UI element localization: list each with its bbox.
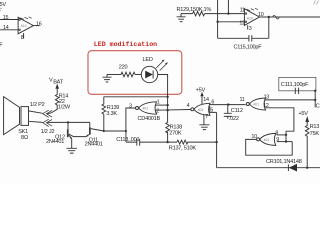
resistor R137 zigzag	[177, 140, 217, 144]
svg-text:C115,100pF: C115,100pF	[234, 45, 263, 51]
pin 7 stub + label	[203, 115, 205, 125]
wire pin 13 line	[265, 99, 315, 101]
svg-text:R13: R13	[310, 124, 320, 130]
svg-text:BAT: BAT	[53, 80, 64, 86]
ground (Q12 emitter)	[67, 148, 78, 153]
node gate U3 pin1	[166, 104, 168, 106]
wire U6 feedback loop	[246, 139, 293, 155]
ground (U4 pin 7)	[199, 125, 209, 130]
svg-text:5V: 5V	[0, 2, 6, 8]
pin 8 stub below U1	[23, 33, 25, 39]
wire C111 bottom edge acts as wire; node at right	[314, 90, 316, 92]
svg-text:+5V: +5V	[298, 111, 308, 117]
resistor R13x 75K vertical	[305, 122, 309, 168]
ground (R129)	[177, 14, 186, 22]
pin 16 output wire	[33, 25, 39, 27]
svg-text:8Ω: 8Ω	[21, 135, 29, 141]
connector 1/2 P2 chevrons	[43, 110, 52, 117]
wire long vertical to bottom line	[216, 112, 218, 167]
svg-text:12: 12	[263, 103, 269, 109]
wire pin 2 / U4 output line	[155, 109, 190, 112]
svg-text:R139: R139	[107, 105, 120, 111]
node C112	[227, 103, 229, 105]
resistor R138 vertical zigzag	[166, 122, 170, 133]
svg-text:75K: 75K	[310, 131, 320, 137]
wire pin 12 line	[218, 21, 245, 23]
svg-text:2N4401: 2N4401	[85, 141, 103, 147]
svg-text:1/2 P2: 1/2 P2	[30, 102, 45, 108]
svg-text:401: 401	[264, 138, 270, 142]
svg-text:1: 1	[157, 99, 160, 105]
node R137 junction	[215, 141, 217, 143]
wire R129 line to op-amp pin 11	[181, 13, 244, 15]
svg-text:2N4401: 2N4401	[46, 139, 64, 145]
svg-text:C113,.001: C113,.001	[116, 137, 139, 143]
svg-text:3.3K: 3.3K	[106, 111, 117, 117]
node R13x bottom	[306, 167, 308, 169]
resistor R129 zigzag	[193, 11, 205, 15]
capacitor C112	[224, 105, 232, 119]
NOR gate U4 (pins 6/5 in, 4 out, 14 VDD, 7 VSS)	[191, 103, 210, 115]
node pin 8	[285, 134, 287, 136]
svg-text:A10: A10	[247, 17, 253, 21]
svg-text:14: 14	[3, 25, 9, 31]
wire speaker top lead	[29, 111, 43, 113]
node gate U3 pin2 / U4 out	[166, 109, 168, 111]
capacitor C111 plates	[295, 88, 298, 94]
resistor R14 vertical	[51, 89, 59, 113]
wire vertical A from top to C115 feedback	[217, 0, 219, 38]
wire resistor to LED	[135, 74, 141, 76]
svg-text:+5V: +5V	[196, 88, 206, 94]
node LED net / horizontal branch	[166, 96, 168, 98]
svg-text:11: 11	[240, 97, 245, 103]
wire pin 1 stub	[155, 104, 167, 106]
svg-text:LED modification: LED modification	[94, 41, 157, 48]
wire U4 pin 6 to U5 output	[210, 104, 246, 106]
node Q12 collector	[67, 121, 69, 123]
svg-text:7: 7	[205, 114, 208, 120]
svg-text:9: 9	[276, 137, 279, 143]
output wire of U2 to right edge	[259, 16, 320, 18]
svg-text:A10: A10	[21, 24, 27, 28]
stray mark below 5V	[0, 8, 2, 10]
wire P2 to R14	[47, 112, 51, 115]
svg-text:1/2W: 1/2W	[58, 105, 71, 111]
connector 1/2 J2 chevrons	[43, 119, 52, 126]
ground (LED branch)	[103, 75, 112, 83]
node R138 bottom	[166, 141, 168, 143]
svg-text:8: 8	[275, 130, 278, 136]
svg-text:8: 8	[21, 35, 24, 41]
pin 14 wire	[0, 29, 18, 31]
wire LED cathode down (net to gates/R138)	[158, 75, 168, 143]
NOR gate U5 (pins 13/12 in, 11 out)	[246, 98, 265, 110]
svg-text:4: 4	[187, 103, 190, 109]
faint corner marks	[314, 1, 319, 5]
capacitor C111 boxed label	[279, 77, 316, 90]
svg-text:C1: C1	[316, 103, 320, 109]
node on pin 11 line	[227, 12, 229, 14]
svg-text:12: 12	[239, 20, 245, 26]
NOR gate U3 (CD4001B, pins 1/2 in right, 3 out left)	[136, 102, 157, 114]
wire C115 feedback	[218, 17, 269, 38]
svg-text:11: 11	[240, 7, 245, 13]
pin 15 wire	[0, 19, 18, 21]
svg-text:401: 401	[143, 107, 149, 111]
node base line junction	[125, 130, 127, 132]
wire C111 node down past pin13 line	[314, 91, 316, 108]
svg-text:R137, 510K: R137, 510K	[169, 145, 197, 151]
red box	[88, 51, 182, 95]
svg-text:270K: 270K	[169, 131, 182, 137]
capacitor C113 wire/plates	[126, 139, 177, 146]
svg-text:15: 15	[3, 15, 9, 21]
svg-text:10: 10	[251, 134, 257, 140]
wire base line to C113 riser	[104, 130, 126, 132]
node pin12 branch	[216, 21, 218, 23]
svg-text:.022: .022	[229, 116, 239, 122]
svg-text:CD4001B: CD4001B	[138, 116, 161, 122]
speaker SK1	[4, 97, 29, 135]
svg-text:R138: R138	[170, 124, 183, 130]
op-amp U2 (top right, pins 11/12 in, 10 out)	[244, 8, 259, 25]
svg-text:CR101,1N4148: CR101,1N4148	[266, 159, 302, 165]
svg-text:1/2 J2: 1/2 J2	[41, 129, 55, 135]
wire horizontal branch to R139	[104, 96, 168, 98]
svg-text:401: 401	[198, 108, 204, 112]
svg-text:2: 2	[156, 108, 159, 114]
svg-text:C111,100pF: C111,100pF	[281, 82, 309, 88]
node output/C115	[268, 16, 270, 18]
svg-text:SK1: SK1	[18, 129, 28, 135]
squiggle symbol on output	[273, 15, 280, 19]
wire J2 line to transistors	[47, 121, 90, 123]
svg-text:C112: C112	[231, 108, 243, 114]
node pin 9	[285, 140, 287, 142]
stub pin below U2	[247, 25, 249, 29]
svg-text:401: 401	[253, 103, 259, 107]
wire tie pins 8-9 vertical	[285, 131, 287, 141]
LED D1	[141, 60, 168, 83]
svg-text:3: 3	[129, 104, 132, 110]
resistor 220 zigzag	[121, 72, 135, 77]
wire speaker bottom lead	[29, 121, 43, 122]
transistor Q12 2N4401	[67, 122, 86, 148]
wire ground to resistor	[107, 74, 121, 76]
svg-text:220: 220	[119, 64, 128, 70]
capacitor C115	[249, 35, 252, 41]
wire pin 9 stub	[277, 141, 292, 143]
wire pin 3 out down to Q11 base / C113	[126, 108, 136, 142]
node pin13/C111	[314, 99, 316, 101]
wire U4 pin 5 down and right	[210, 106, 217, 112]
node R139/base	[103, 130, 105, 132]
NOR gate U6 (pins 8/9 in, 10 out)	[257, 133, 276, 145]
resistor R139 vertical	[102, 97, 106, 131]
transistor Q11 2N4401	[86, 122, 104, 136]
svg-text:16: 16	[36, 22, 42, 28]
op-amp U1 (left, pins 15/14 in, 16 out)	[18, 17, 33, 34]
diode CR101 1N4148	[287, 164, 289, 171]
svg-text:LED: LED	[143, 57, 153, 63]
wire vertical B from top to pin 11 line	[227, 0, 229, 14]
bottom wire with diode	[217, 167, 320, 169]
wire pin 12 line then down	[265, 108, 294, 131]
wire pin 8 stub	[277, 134, 286, 136]
svg-text:14: 14	[203, 97, 209, 103]
svg-text:3: 3	[249, 26, 252, 32]
